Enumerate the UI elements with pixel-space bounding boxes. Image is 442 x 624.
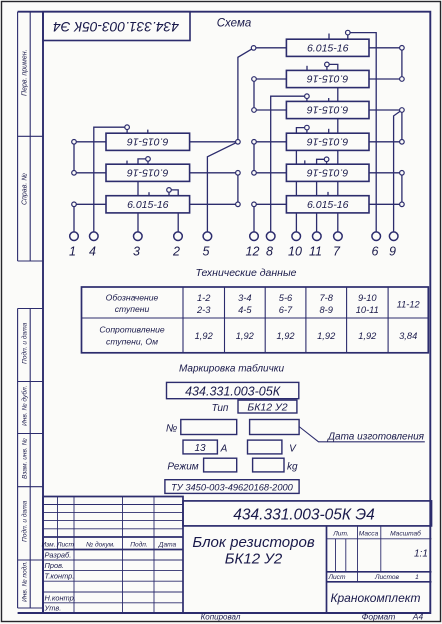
node R5 tap [324,157,329,162]
svg-text:Инв. № подл.: Инв. № подл. [21,561,29,602]
unused tap stub on R4 [328,129,330,133]
designation cell [183,501,432,526]
svg-text:10: 10 [288,245,302,259]
table header values row [196,293,421,315]
terminal 3 [134,232,143,241]
left margin box: Перв. примен. [18,12,43,261]
svg-text:6: 6 [372,245,379,259]
svg-text:А4: А4 [412,612,424,622]
svg-text:1,92: 1,92 [276,331,295,341]
svg-text:ступени, Ом: ступени, Ом [106,337,158,347]
wire R1 left node to R1 lead [254,47,287,49]
svg-text:Подп. и дата: Подп. и дата [21,500,29,542]
node L2.left [72,171,77,176]
svg-text:Тип: Тип [212,403,229,414]
svg-text:11: 11 [309,245,322,259]
terminal 8 [266,232,275,241]
svg-text:10-11: 10-11 [356,305,379,315]
R1 tap stub [347,33,349,40]
svg-text:Маркировка таблички: Маркировка таблички [179,363,285,375]
svg-text:Режим: Режим [167,462,198,473]
plate box: serial no [181,420,237,435]
svg-text:434.331.003-05К Э4: 434.331.003-05К Э4 [233,507,375,524]
wire R3 tap to terminal8 [271,96,307,232]
wire node to resistor L2 left lead [74,172,106,174]
wire terminal1 riser to node row6 [73,204,75,232]
unused tap stub on R1 [328,34,330,40]
svg-text:Сопротивление: Сопротивление [99,325,165,335]
terminal 6 [372,232,381,241]
svg-text:1,92: 1,92 [236,331,255,341]
node R1 tap [346,30,351,35]
svg-text:Масштаб: Масштаб [390,530,421,538]
wire R3 left lead [254,109,286,111]
node L1 tap [125,125,130,130]
svg-text:1,92: 1,92 [317,331,336,341]
svg-text:3: 3 [133,245,140,259]
svg-text:4-5: 4-5 [238,305,252,315]
plate box: amperes [183,440,217,454]
terminal 10 [292,232,301,241]
signature rows [43,560,183,603]
resistor L1 (6.015-16) [106,133,190,150]
wire node up to R1 left node (with bend) [238,48,254,142]
svg-text:6.015-16: 6.015-16 [127,166,169,178]
svg-text:6.015-16: 6.015-16 [307,135,349,147]
wire joining R3.right and R4.right nodes [401,110,403,142]
plate box: type value [238,400,297,413]
wire R4 left lead [254,141,286,143]
svg-text:Пров.: Пров. [45,561,65,570]
plate box: designation [167,382,299,398]
svg-text:Изм.: Изм. [41,542,55,549]
plate box: kg [253,458,284,472]
wire joining R2.left and R3.left nodes [253,79,255,110]
svg-text:8-9: 8-9 [319,305,332,315]
svg-text:№: № [166,423,177,435]
wire R6 left lead [254,203,286,205]
plate box: TU [165,480,299,494]
terminal 7 [334,232,343,241]
unused tap stub on R3 [328,98,330,101]
svg-text:Листов: Листов [374,574,400,581]
wire joining L2.right and L3.right nodes [237,173,239,205]
svg-text:Лит.: Лит. [332,531,349,538]
svg-text:1: 1 [415,574,419,581]
svg-text:Дата: Дата [158,542,177,549]
terminal 5 [203,232,212,241]
svg-text:6.015-16: 6.015-16 [307,43,349,55]
svg-text:8: 8 [266,245,273,259]
node R3.right [400,108,405,113]
resistor L2 (6.015-16) [106,164,190,181]
wire joining R5.right and R6.right nodes [401,173,403,205]
resistor R1 (6.015-16) [286,39,369,56]
wire R5 tap to terminal11 [317,159,327,232]
wire terminal4 to L1 tap [94,127,127,232]
resistor R3 (6.015-16) [286,101,369,118]
node L2 tap [146,157,151,162]
column lines [58,497,155,614]
wire joining L1.left and L2.left nodes [73,142,75,173]
node R2 tap [325,62,330,67]
wire R2 tap to terminal7 [327,64,338,232]
svg-text:1,92: 1,92 [195,331,214,341]
wire R3 right lead to node [369,109,402,111]
node L2.right [236,171,241,176]
L3 tap stub [168,190,170,196]
svg-text:V: V [289,444,297,455]
svg-text:ТУ 3450-003-49620168-2000: ТУ 3450-003-49620168-2000 [171,483,294,493]
svg-text:Подп. и дата: Подп. и дата [21,322,29,364]
wire R1 tap to terminal6 [348,33,376,232]
wire R6 left node down to terminal12 [253,204,255,232]
terminal 11 [313,232,322,241]
node R5.right [400,171,405,176]
right part: header row and columns [327,538,432,540]
svg-text:Справ. №: Справ. № [22,173,29,205]
left margin box: Справ. № [18,260,43,262]
unused tap stub on L2 [126,161,128,165]
node R6.right [400,202,405,207]
R4 tap stub [306,128,308,134]
svg-text:Лист: Лист [328,574,346,581]
svg-text:6.015-16: 6.015-16 [307,104,349,116]
wire R2 left lead [254,78,286,80]
wire joining R4.left and R5.left nodes [253,142,255,173]
plate box: date [250,420,300,435]
node R2.left [252,77,257,82]
svg-text:6.015-16: 6.015-16 [127,199,169,211]
wire L2 right lead to node [190,172,238,174]
wire R5 right lead to node [369,172,402,174]
svg-text:9: 9 [389,245,396,259]
technical data table grid [82,287,429,353]
svg-text:6.015-16: 6.015-16 [307,166,349,178]
svg-text:Дата изготовления: Дата изготовления [327,432,425,443]
svg-text:6-7: 6-7 [279,305,293,315]
svg-text:3,84: 3,84 [399,331,417,341]
svg-text:1,92: 1,92 [358,331,377,341]
svg-text:5-6: 5-6 [279,293,293,303]
svg-text:Взам. инв. №: Взам. инв. № [22,438,29,479]
svg-text:Утв.: Утв. [44,604,62,613]
svg-text:БК12 У2: БК12 У2 [225,551,283,568]
node L3.left [72,202,77,207]
wire L3 right lead to node [190,203,238,205]
svg-text:Разраб.: Разраб. [45,551,72,560]
svg-text:2-3: 2-3 [196,305,211,315]
wire R1 right lead to node [369,47,402,49]
svg-text:Масса: Масса [359,531,379,538]
resistor R6 (6.015-16) [286,196,369,213]
svg-text:Технические данные: Технические данные [195,267,296,279]
svg-text:5: 5 [203,245,210,259]
svg-text:kg: kg [287,462,298,473]
svg-text:Формат: Формат [362,612,396,622]
R5 tap stub [326,159,328,164]
svg-text:3-4: 3-4 [238,293,251,303]
svg-text:434.331.003-05К Э4: 434.331.003-05К Э4 [53,19,179,34]
svg-text:4: 4 [89,245,96,259]
node R4.left [252,140,257,145]
svg-text:434.331.003-05К: 434.331.003-05К [185,385,281,399]
resistor R5 (6.015-16) [286,164,369,181]
svg-text:12: 12 [246,245,260,259]
svg-text:ступени: ступени [115,304,150,314]
leader line to Дата изготовления [299,427,425,442]
terminal 4 [90,232,99,241]
svg-text:БК12 У2: БК12 У2 [247,402,287,414]
svg-text:Перв. примен.: Перв. примен. [22,49,29,96]
left margin box group: Подп. и дата / Инв. № дубл. / Взам. инв. № / Подп. и дата / Инв. № подл. [18,309,43,609]
plate box: volts [248,440,282,454]
unused tap stub on L1 [147,130,149,134]
svg-text:Кранокомплект: Кранокомплект [330,591,420,605]
svg-text:№ докум.: № докум. [86,541,115,549]
wire node diagonal down to terminal5 [207,142,238,232]
svg-text:Инв. № дубл.: Инв. № дубл. [21,385,29,426]
L2 tap stub [147,159,149,164]
svg-text:Т.контр.: Т.контр. [45,572,75,581]
wire joining R1.right and R2.right nodes [401,48,403,79]
terminal 1 [70,232,79,241]
svg-text:Блок резисторов: Блок резисторов [192,534,314,551]
node R5.left [252,171,257,176]
svg-text:1:1: 1:1 [414,549,428,560]
resistor L3 (6.015-16) [106,196,190,213]
node R1.left [251,46,256,51]
svg-text:7-8: 7-8 [319,293,333,303]
node R3.left [252,108,257,113]
svg-text:1: 1 [69,245,76,259]
svg-text:Подп.: Подп. [130,541,148,549]
lit sub-cells [336,539,346,572]
terminal 12 [250,232,259,241]
unused tap stub on L3 [148,192,150,196]
node L1.right [236,140,241,145]
svg-text:Лист: Лист [56,542,74,549]
frame left line [42,12,44,613]
wire R4 tap to terminal10 [296,128,307,232]
wire L2 tap to terminal3 [138,159,148,232]
L1 tap stub [126,127,128,133]
R3 tap stub [306,96,308,101]
node R4.right [400,140,405,145]
marking plate boxes [165,382,425,493]
svg-text:Н.контр.: Н.контр. [45,594,76,603]
wire node to resistor L1 left lead [74,141,106,143]
unused tap stub on R5 [304,160,306,164]
svg-text:2: 2 [172,245,180,259]
node R1.right [400,46,405,51]
svg-text:6.015-16: 6.015-16 [307,199,349,211]
svg-text:11-12: 11-12 [397,300,421,310]
node L3 tap [167,188,172,193]
svg-text:Обозначение: Обозначение [106,293,159,303]
designation stamp box (rotated), top-left [43,12,190,41]
wire R2 right lead to node [369,78,402,80]
unused tap stub on R2 [306,66,308,71]
table resistance values row [195,331,418,341]
wire R3.right node down to terminal9 [394,110,402,232]
resistor R2 (6.015-16) [286,70,369,87]
svg-text:6.015-16: 6.015-16 [307,73,349,85]
svg-text:Схема: Схема [217,18,251,30]
node R2.right [400,77,405,82]
wire R5 left lead [254,172,286,174]
node L3.right [236,202,241,207]
wire L1 right lead to node [190,141,238,143]
svg-text:13: 13 [194,443,206,454]
node L1.left [72,140,77,145]
wire R6 right lead to node [369,203,402,205]
R2 tap stub [326,64,328,70]
plate box: regime [204,458,237,472]
node R4 tap [305,125,310,130]
svg-text:Копировал: Копировал [201,613,241,622]
wire L3 tap to terminal2 [169,190,178,232]
svg-text:9-10: 9-10 [358,293,377,303]
right part divider [326,526,328,613]
svg-text:7: 7 [333,245,341,259]
svg-text:1-2: 1-2 [197,293,211,303]
svg-text:А: А [220,444,228,455]
change table thin rows [43,505,183,529]
wire node to resistor L3 left lead [74,203,106,205]
terminal 2 [174,232,183,241]
node R3 tap [305,94,310,99]
title block outline left part [43,497,183,614]
svg-text:6.015-16: 6.015-16 [127,135,169,147]
wire R4 right lead to node [369,141,402,143]
unused tap stub on R6 [327,192,329,196]
terminal 9 [389,232,398,241]
resistor R4 (6.015-16) [286,133,369,150]
node R6.left [252,202,257,207]
